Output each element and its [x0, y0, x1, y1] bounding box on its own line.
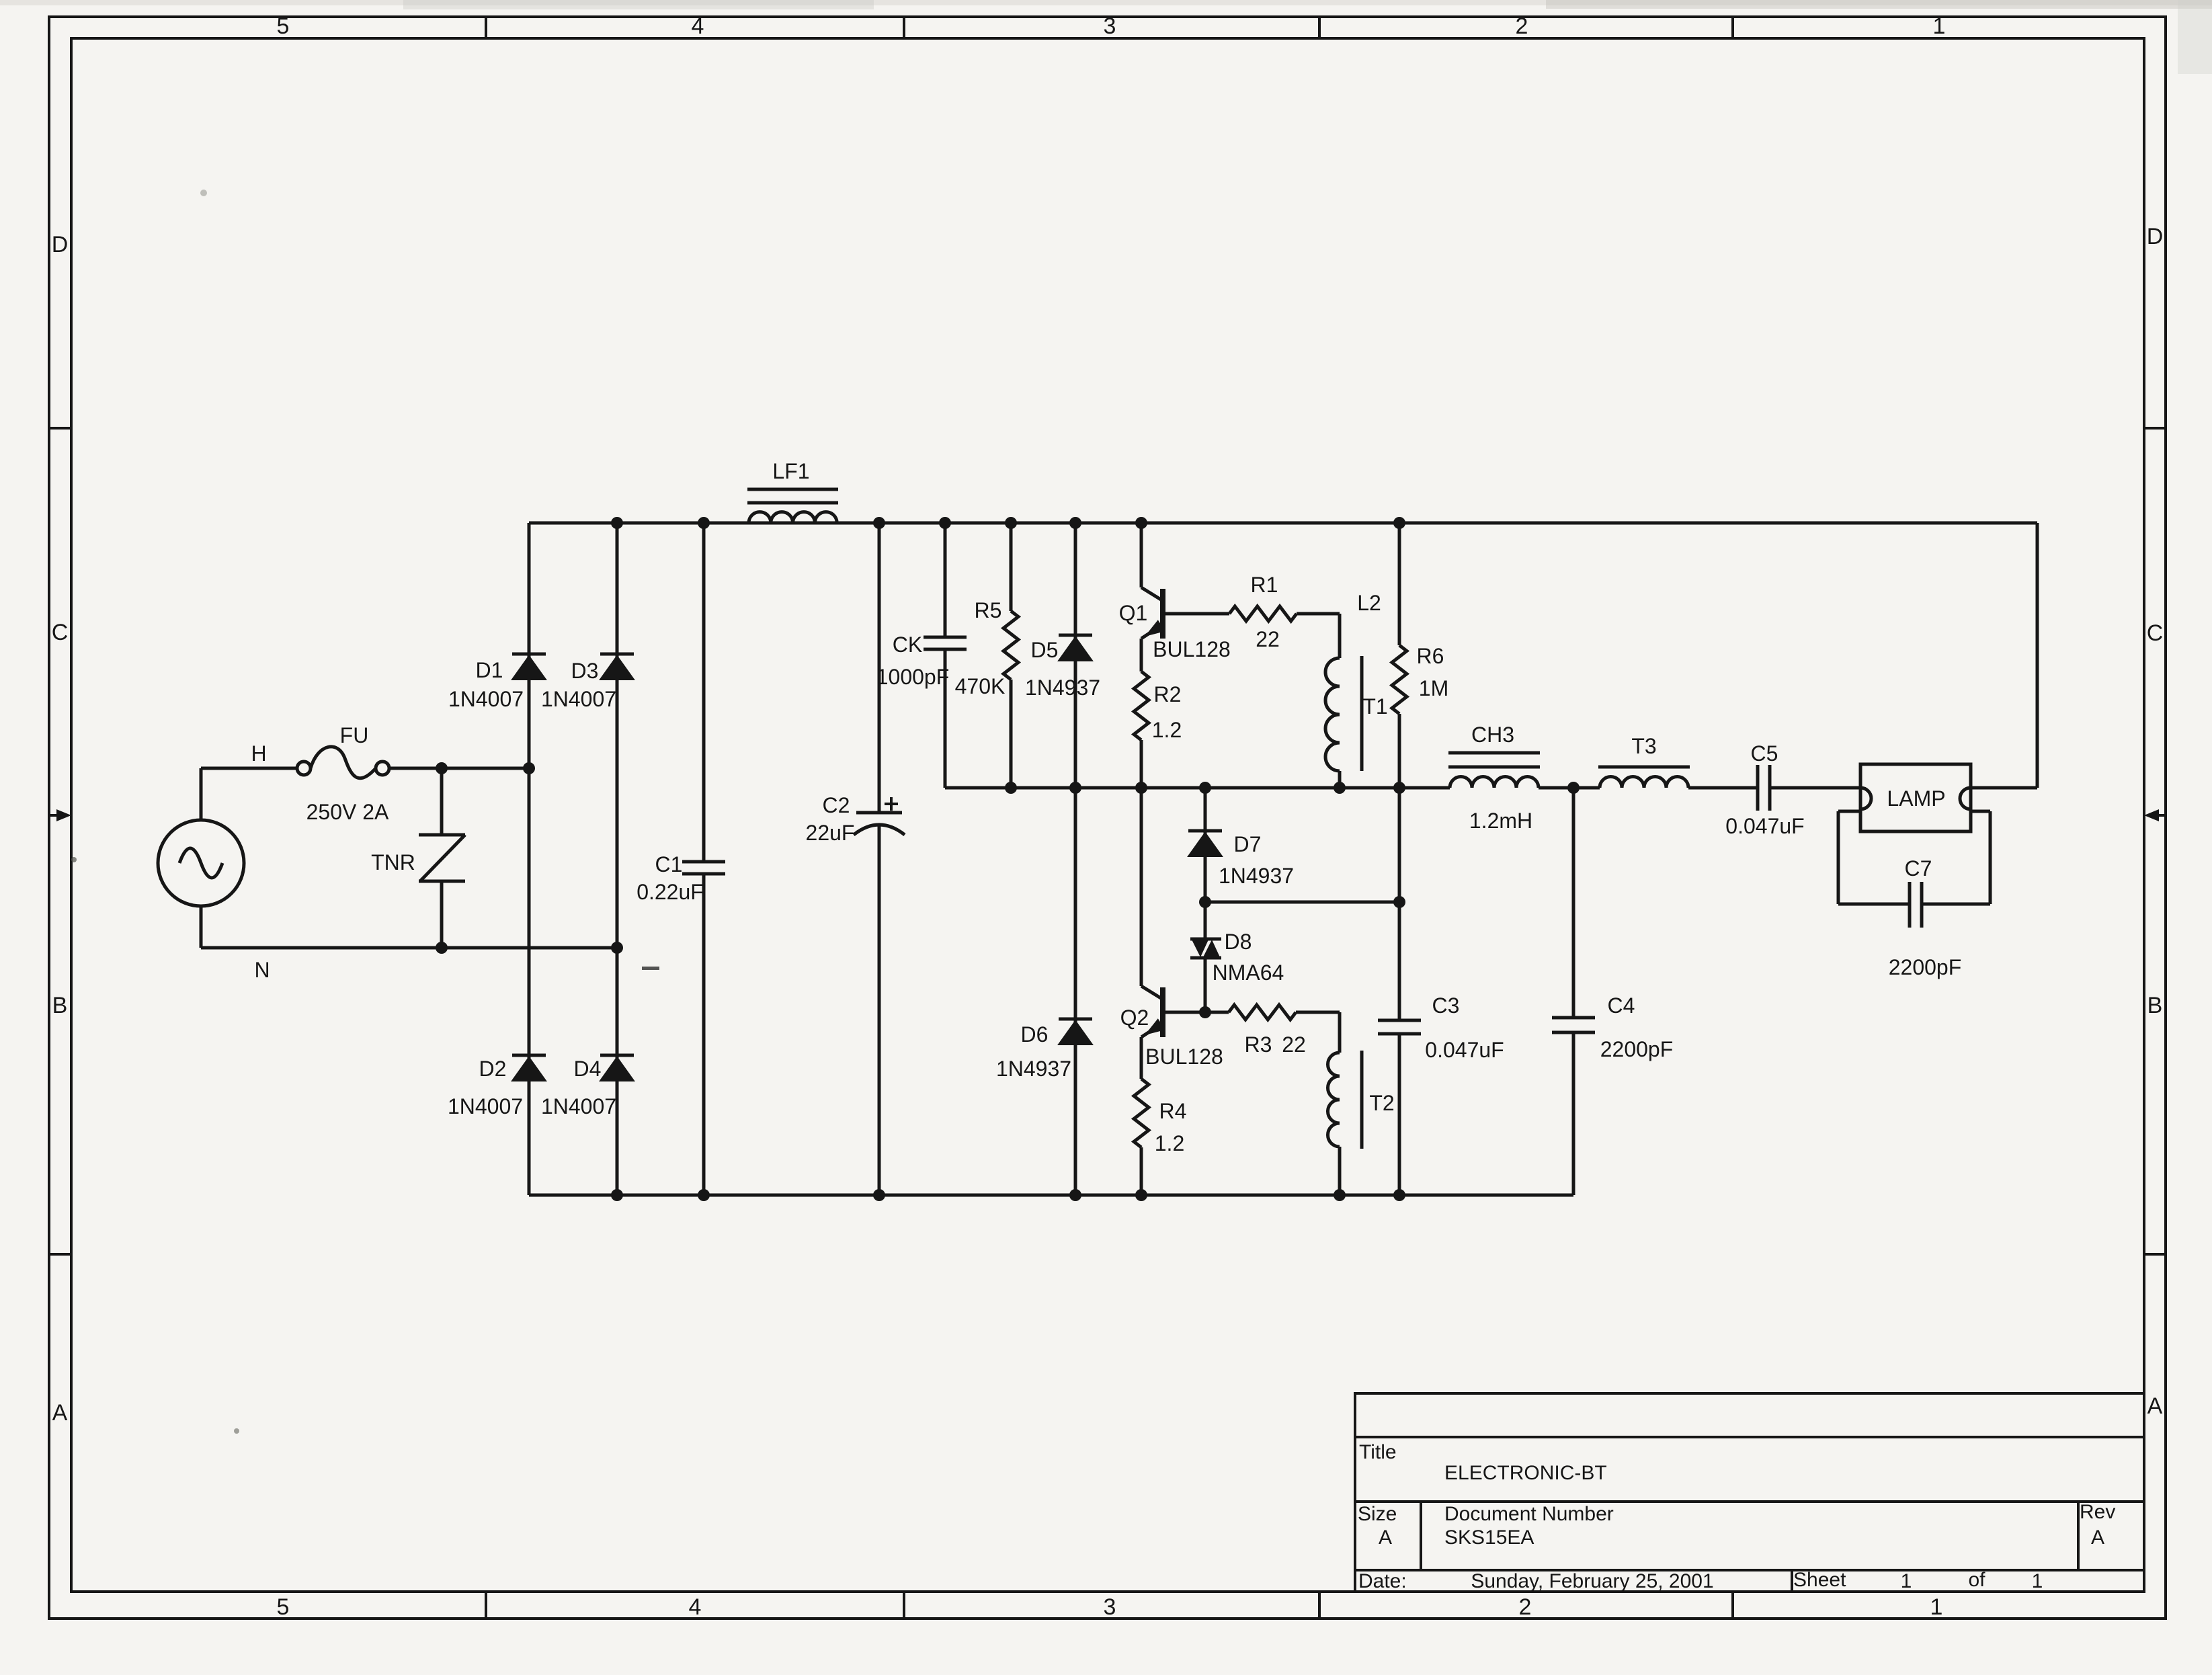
svg-text:C: C	[2147, 620, 2164, 646]
svg-text:2: 2	[1516, 13, 1528, 39]
svg-text:1N4937: 1N4937	[1219, 864, 1294, 888]
svg-text:D1: D1	[476, 658, 503, 682]
diode D3	[600, 654, 634, 680]
capacitor C4 label	[1608, 993, 1635, 1018]
inductor CH3 value 1.2mH	[1469, 809, 1532, 833]
wire bottom bus	[529, 1189, 1573, 1201]
capacitor C3 label	[1432, 993, 1460, 1018]
transformer T1 label	[1362, 694, 1387, 719]
capacitor C5 value 0.047uF	[1725, 814, 1804, 838]
capacitor C1	[682, 862, 725, 874]
diode D2	[512, 1055, 546, 1081]
node N	[254, 958, 270, 982]
wire Q1 emitter to R2	[1140, 639, 1143, 671]
capacitor C2 value 22uF	[806, 821, 855, 845]
capacitor CK label	[893, 632, 922, 657]
svg-text:CK: CK	[893, 632, 922, 657]
wire bridge second column	[616, 523, 619, 1195]
svg-text:T1: T1	[1362, 694, 1387, 719]
lamp LAMP label	[1887, 786, 1945, 811]
capacitor C1 label	[655, 852, 683, 876]
resistor R4 value 1.2	[1155, 1131, 1184, 1155]
svg-text:NMA64: NMA64	[1213, 961, 1284, 985]
diode D6 label	[1021, 1022, 1049, 1047]
svg-text:B: B	[2147, 993, 2163, 1018]
capacitor CK	[924, 637, 967, 649]
svg-text:D3: D3	[571, 659, 599, 683]
svg-text:Size: Size	[1358, 1503, 1397, 1525]
diode D7 label	[1234, 832, 1262, 856]
wire fuse to bridge	[389, 762, 535, 774]
svg-text:1N4007: 1N4007	[541, 1094, 616, 1118]
svg-text:5: 5	[277, 13, 290, 39]
wire L2 to mid bus	[1338, 771, 1342, 788]
resistor R1	[1229, 606, 1297, 621]
diode D6 value 1N4937	[996, 1057, 1071, 1081]
transistor Q2 type BUL128	[1145, 1045, 1223, 1069]
svg-text:A: A	[1379, 1526, 1392, 1549]
svg-text:D7: D7	[1234, 832, 1262, 856]
svg-text:5: 5	[277, 1594, 290, 1620]
diac D8 value NMA64	[1213, 961, 1284, 985]
resistor R3 value 22	[1282, 1032, 1306, 1057]
svg-text:22: 22	[1256, 627, 1280, 651]
resistor R5 label	[975, 598, 1002, 622]
transistor Q2 label	[1120, 1006, 1149, 1030]
wire lamp left pin to C7	[1838, 811, 1910, 904]
svg-text:2: 2	[1519, 1594, 1532, 1620]
svg-text:R2: R2	[1154, 682, 1182, 706]
wire R1 to L2	[1297, 614, 1340, 658]
wire D7 node to C3 column	[1199, 896, 1405, 908]
wire D5 column	[1074, 523, 1077, 788]
svg-text:D4: D4	[574, 1057, 602, 1081]
svg-text:1: 1	[2032, 1570, 2043, 1592]
resistor R5 value 470K	[955, 674, 1006, 698]
svg-text:R5: R5	[975, 598, 1002, 622]
svg-text:Date:: Date:	[1358, 1570, 1407, 1592]
diac D8 label	[1225, 930, 1252, 954]
resistor R6 label	[1417, 644, 1444, 668]
diode D5	[1059, 635, 1092, 661]
wire lamp right pin to C7	[1922, 811, 1990, 904]
svg-text:H: H	[251, 741, 266, 766]
svg-text:2200pF: 2200pF	[1889, 955, 1962, 979]
inductor LF1 label	[772, 459, 809, 483]
wire mid bus	[945, 782, 1860, 794]
capacitor C2	[854, 797, 905, 835]
wire source to H line	[200, 768, 203, 820]
transformer T1 core	[1360, 656, 1364, 771]
svg-text:1N4937: 1N4937	[996, 1057, 1071, 1081]
wire CK column	[944, 523, 947, 788]
varistor TNR	[419, 768, 465, 948]
diac D8	[1190, 939, 1221, 958]
diode D7	[1188, 831, 1222, 856]
fuse FU	[297, 747, 389, 778]
svg-text:R3: R3	[1245, 1032, 1272, 1057]
svg-text:1N4007: 1N4007	[448, 687, 524, 711]
resistor R2 value 1.2	[1152, 718, 1182, 742]
transformer T2 label	[1369, 1091, 1394, 1115]
resistor R2 label	[1154, 682, 1182, 706]
wire Q2 emitter to R4	[1140, 1037, 1143, 1079]
svg-text:Sunday, February 25, 2001: Sunday, February 25, 2001	[1471, 1570, 1713, 1592]
capacitor C4 value 2200pF	[1600, 1037, 1674, 1061]
resistor R1 label	[1251, 573, 1278, 597]
svg-text:ELECTRONIC-BT: ELECTRONIC-BT	[1444, 1462, 1607, 1484]
svg-text:22uF: 22uF	[806, 821, 855, 845]
capacitor C5	[1758, 765, 1770, 811]
transistor Q1 type BUL128	[1153, 637, 1231, 661]
diode D6	[1059, 1019, 1092, 1045]
inductor L2 winding	[1325, 658, 1340, 771]
resistor R6 value 1M	[1419, 676, 1448, 700]
svg-text:D: D	[2147, 224, 2164, 249]
svg-text:3: 3	[1104, 1594, 1116, 1620]
svg-text:4: 4	[692, 13, 704, 39]
diode D2 value 1N4007	[448, 1094, 523, 1118]
wire source to N line	[200, 906, 203, 948]
diode D5 label	[1031, 638, 1059, 662]
resistor R4	[1134, 1079, 1149, 1147]
capacitor C7	[1910, 882, 1922, 928]
svg-text:T2: T2	[1369, 1091, 1394, 1115]
wire bridge left column	[528, 523, 531, 1195]
diode D4 label	[574, 1057, 602, 1081]
svg-text:T3: T3	[1631, 734, 1656, 758]
capacitor C1 value 0.22uF	[637, 880, 704, 904]
svg-text:4: 4	[689, 1594, 702, 1620]
svg-text:1.2: 1.2	[1155, 1131, 1184, 1155]
svg-text:1N4007: 1N4007	[541, 687, 616, 711]
svg-text:1N4937: 1N4937	[1025, 676, 1100, 700]
wire R6 column	[1398, 523, 1401, 788]
diode D1 label	[476, 658, 503, 682]
wire R5 column	[1010, 523, 1013, 788]
svg-text:C7: C7	[1905, 856, 1932, 881]
diode D3 value 1N4007	[541, 687, 616, 711]
capacitor C7 label	[1905, 856, 1932, 881]
wire C1 column	[702, 523, 706, 1195]
resistor R6	[1392, 645, 1407, 714]
svg-text:LF1: LF1	[772, 459, 809, 483]
diode D7 value 1N4937	[1219, 864, 1294, 888]
inductor CH3 label	[1471, 723, 1514, 747]
capacitor C3	[1378, 1020, 1421, 1034]
fuse value 250V 2A	[306, 800, 389, 824]
inductor CH3	[1448, 753, 1540, 788]
fuse FU label	[340, 723, 369, 747]
wire Q2 base to R3	[1163, 1006, 1229, 1018]
inductor T3	[1598, 767, 1690, 788]
capacitor CK value 1000pF	[876, 665, 950, 689]
capacitor C4	[1552, 1018, 1595, 1032]
resistor R3 label	[1245, 1032, 1272, 1057]
svg-text:1M: 1M	[1419, 676, 1448, 700]
svg-text:0.047uF: 0.047uF	[1725, 814, 1804, 838]
resistor R4 label	[1159, 1099, 1187, 1123]
varistor TNR label	[371, 850, 415, 874]
inductor T2 winding	[1328, 1053, 1340, 1147]
svg-text:Rev: Rev	[2080, 1501, 2115, 1523]
diode D1 value 1N4007	[448, 687, 524, 711]
svg-text:C2: C2	[823, 793, 850, 817]
svg-text:N: N	[254, 958, 270, 982]
wire right riser	[2036, 523, 2039, 788]
capacitor C3 value 0.047uF	[1425, 1038, 1504, 1062]
svg-text:0.047uF: 0.047uF	[1425, 1038, 1504, 1062]
svg-text:Q2: Q2	[1120, 1006, 1149, 1030]
capacitor C5 label	[1751, 741, 1778, 766]
resistor R3	[1229, 1005, 1296, 1020]
svg-text:BUL128: BUL128	[1153, 637, 1231, 661]
svg-text:A: A	[52, 1400, 68, 1426]
svg-text:A: A	[2147, 1393, 2163, 1419]
svg-text:Document Number: Document Number	[1444, 1503, 1614, 1525]
capacitor C7 value 2200pF	[1889, 955, 1962, 979]
svg-text:C4: C4	[1608, 993, 1635, 1018]
wire H segment	[201, 767, 298, 770]
svg-text:R6: R6	[1417, 644, 1444, 668]
svg-text:D5: D5	[1031, 638, 1059, 662]
svg-text:B: B	[52, 993, 68, 1018]
wire D8 column	[1204, 902, 1207, 1012]
svg-text:22: 22	[1282, 1032, 1306, 1057]
svg-text:470K: 470K	[955, 674, 1006, 698]
resistor R2	[1134, 671, 1149, 740]
resistor R1 value 22	[1256, 627, 1280, 651]
wire R2 to mid bus	[1140, 740, 1143, 788]
svg-text:C: C	[52, 620, 69, 645]
wire R4 to bottom bus	[1140, 1147, 1143, 1195]
svg-text:Q1: Q1	[1119, 601, 1148, 625]
AC voltage source	[158, 820, 244, 906]
transistor Q2	[1141, 788, 1165, 1037]
svg-text:D2: D2	[479, 1057, 507, 1081]
diode D2 label	[479, 1057, 507, 1081]
svg-text:1.2mH: 1.2mH	[1469, 809, 1532, 833]
capacitor C2 label	[823, 793, 850, 817]
svg-text:BUL128: BUL128	[1145, 1045, 1223, 1069]
svg-text:of: of	[1968, 1569, 1985, 1591]
wire D6 column	[1074, 788, 1077, 1195]
diode D3 label	[571, 659, 599, 683]
wire lamp to right riser	[1971, 786, 2037, 790]
svg-text:SKS15EA: SKS15EA	[1444, 1526, 1534, 1549]
wire D7 column	[1204, 788, 1207, 902]
transformer T2 core	[1360, 1051, 1364, 1149]
diode D5 value 1N4937	[1025, 676, 1100, 700]
svg-text:C5: C5	[1751, 741, 1778, 766]
wire top bus	[529, 517, 2037, 529]
svg-text:LAMP: LAMP	[1887, 786, 1945, 811]
svg-text:R1: R1	[1251, 573, 1278, 597]
svg-text:0.22uF: 0.22uF	[637, 880, 704, 904]
inductor T3 label	[1631, 734, 1656, 758]
svg-text:250V 2A: 250V 2A	[306, 800, 389, 824]
svg-text:D8: D8	[1225, 930, 1252, 954]
svg-text:1: 1	[1930, 1594, 1943, 1620]
wire C2 column	[878, 523, 881, 1195]
svg-text:3: 3	[1104, 13, 1116, 39]
wire C3 column	[1398, 788, 1401, 1195]
svg-text:C1: C1	[655, 852, 683, 876]
wire N segment	[201, 942, 623, 954]
inductor L2 label	[1357, 591, 1381, 615]
wire C4 column	[1572, 788, 1575, 1195]
svg-text:A: A	[2091, 1526, 2104, 1549]
svg-text:D6: D6	[1021, 1022, 1049, 1047]
svg-text:1N4007: 1N4007	[448, 1094, 523, 1118]
transistor Q1	[1141, 523, 1165, 639]
wire R3 to T2	[1296, 1012, 1340, 1053]
svg-text:1.2: 1.2	[1152, 718, 1182, 742]
svg-text:1000pF: 1000pF	[876, 665, 950, 689]
transistor Q1 label	[1119, 601, 1148, 625]
svg-text:Sheet: Sheet	[1793, 1569, 1846, 1591]
svg-text:R4: R4	[1159, 1099, 1187, 1123]
svg-text:L2: L2	[1357, 591, 1381, 615]
diode D4 value 1N4007	[541, 1094, 616, 1118]
svg-text:C3: C3	[1432, 993, 1460, 1018]
svg-text:1: 1	[1933, 13, 1946, 39]
svg-text:FU: FU	[340, 723, 369, 747]
svg-text:1: 1	[1901, 1570, 1912, 1592]
svg-text:Title: Title	[1359, 1441, 1397, 1463]
wire Q1 base to R1	[1163, 612, 1229, 616]
node H	[251, 741, 266, 766]
inductor LF1	[747, 489, 838, 523]
resistor R5	[1003, 611, 1018, 680]
diode D1	[512, 654, 546, 680]
wire T2 to bottom bus	[1338, 1147, 1342, 1195]
diode D4	[600, 1055, 634, 1081]
svg-text:2200pF: 2200pF	[1600, 1037, 1674, 1061]
svg-text:CH3: CH3	[1471, 723, 1514, 747]
svg-text:TNR: TNR	[371, 850, 415, 874]
svg-text:D: D	[52, 232, 69, 257]
lamp LAMP	[1860, 764, 1971, 831]
